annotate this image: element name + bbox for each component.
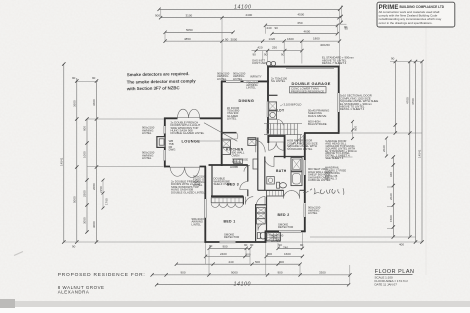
garage sectional door opening <box>286 68 334 70</box>
svg-text:500: 500 <box>255 260 260 264</box>
svg-text:LINTEL: LINTEL <box>227 117 237 121</box>
bottom extension/connector lines <box>205 233 349 285</box>
svg-text:LINTEL: LINTEL <box>233 77 243 81</box>
svg-text:LINTEL: LINTEL <box>308 211 318 215</box>
svg-text:CONT HWC: CONT HWC <box>252 61 267 65</box>
double doors bed2 <box>284 190 300 198</box>
svg-text:90: 90 <box>244 243 248 247</box>
right extension lines <box>267 62 423 243</box>
kitchen counter outline <box>222 133 238 139</box>
bed1 north wardrobe band <box>211 198 243 203</box>
hall north line <box>248 138 257 140</box>
hall cupboard boxes <box>253 159 258 169</box>
handwritten mark <box>303 188 344 195</box>
svg-text:with Section 3F7 of NZBC: with Section 3F7 of NZBC <box>126 85 181 91</box>
svg-text:4700: 4700 <box>411 98 415 105</box>
svg-text:740: 740 <box>283 246 288 250</box>
svg-text:DINING: DINING <box>239 98 255 103</box>
svg-text:occur in the drawings and spec: occur in the drawings and specifications… <box>379 21 433 25</box>
svg-text:1320: 1320 <box>269 37 276 41</box>
door arc laundry <box>277 120 283 126</box>
bottom dim row D line <box>152 274 350 276</box>
left extension lines <box>64 81 205 242</box>
bottom overall line <box>157 284 349 286</box>
smoke detector note <box>126 71 197 91</box>
svg-text:3,100 BIFOLD: 3,100 BIFOLD <box>284 102 302 106</box>
svg-text:14541: 14541 <box>60 157 64 166</box>
svg-text:SG LINTEL: SG LINTEL <box>271 79 286 83</box>
dimension row 5 line <box>165 40 339 42</box>
svg-text:HOBB: HOBB <box>230 165 238 169</box>
window: lounge west lower <box>164 150 166 161</box>
svg-text:5000: 5000 <box>72 196 76 203</box>
kitchen top line + diagonal <box>222 132 237 134</box>
svg-text:3600: 3600 <box>72 100 76 107</box>
svg-text:LINTEL: LINTEL <box>246 86 256 90</box>
french doors lounge north <box>178 109 200 118</box>
svg-text:1800: 1800 <box>313 37 320 41</box>
bottom dim row C line <box>176 263 300 265</box>
laundry top stub wall <box>268 94 278 96</box>
wall: hall east / wc west <box>256 138 258 243</box>
dimension row 3 line (right side) <box>265 24 337 26</box>
svg-text:400x50: 400x50 <box>320 43 330 47</box>
svg-text:90: 90 <box>72 245 76 249</box>
wall: bath west <box>264 157 266 191</box>
svg-text:1760: 1760 <box>105 198 109 205</box>
svg-text:90: 90 <box>225 37 229 41</box>
wall: wc top <box>256 204 267 206</box>
svg-text:2080: 2080 <box>92 183 96 190</box>
bifold opening garage west <box>267 101 269 117</box>
window: garage east <box>338 93 340 112</box>
wall: bath north <box>274 156 305 158</box>
step hatch box SE <box>267 233 281 241</box>
svg-text:650: 650 <box>298 21 303 25</box>
svg-text:BED 1: BED 1 <box>224 219 236 223</box>
svg-text:4500: 4500 <box>298 13 305 17</box>
svg-text:LINTEL: LINTEL <box>217 77 227 81</box>
wall: garage south <box>304 132 340 134</box>
svg-text:3600: 3600 <box>92 99 96 106</box>
svg-text:420: 420 <box>258 46 263 50</box>
svg-text:STANDARD LINTEL: STANDARD LINTEL <box>287 147 313 151</box>
svg-text:LINTEL: LINTEL <box>271 239 281 243</box>
svg-text:LOUNGE: LOUNGE <box>182 139 201 144</box>
wall: east <box>304 133 306 232</box>
svg-text:14541: 14541 <box>418 149 422 158</box>
svg-text:DOUBLE GLAZED LINTEL: DOUBLE GLAZED LINTEL <box>171 190 205 194</box>
entry double swing doors <box>269 142 284 150</box>
svg-text:LINTEL: LINTEL <box>193 183 203 187</box>
svg-text:2500: 2500 <box>83 190 87 197</box>
svg-text:3100: 3100 <box>186 13 193 17</box>
svg-text:1000: 1000 <box>83 151 87 158</box>
svg-text:90: 90 <box>264 53 268 57</box>
left dim column A (overall 14541) <box>63 64 65 242</box>
svg-text:DETAIL 3: DETAIL 3 <box>325 177 337 181</box>
window: bath east <box>304 160 306 175</box>
wall: wc east / bed2 west <box>266 196 268 231</box>
svg-text:600: 600 <box>354 126 358 131</box>
svg-text:BALUSTRADE: BALUSTRADE <box>308 122 327 126</box>
svg-text:BED 2: BED 2 <box>278 213 290 217</box>
gas circles on garage corner <box>267 61 271 65</box>
svg-text:2020: 2020 <box>389 193 393 200</box>
wall: step east of bed1 <box>265 231 267 243</box>
svg-text:90: 90 <box>279 243 283 247</box>
window: bed2 east <box>304 203 306 217</box>
svg-text:14100: 14100 <box>234 5 251 11</box>
svg-text:900: 900 <box>223 244 228 248</box>
svg-text:2400: 2400 <box>246 13 253 17</box>
bottom dim row B segments <box>206 255 303 257</box>
laundry appliance boxes <box>269 102 277 110</box>
svg-text:LINTEL: LINTEL <box>142 131 152 135</box>
entry lobby walls <box>268 135 286 159</box>
svg-text:1600: 1600 <box>284 252 291 256</box>
svg-text:4850: 4850 <box>184 37 191 41</box>
svg-text:DETAIL 1 SHEET 4: DETAIL 1 SHEET 4 <box>340 107 365 111</box>
svg-text:900: 900 <box>181 270 186 274</box>
svg-text:90: 90 <box>92 76 96 80</box>
svg-text:DWG: DWG <box>169 148 176 152</box>
svg-text:LINTEL: LINTEL <box>192 222 202 226</box>
right dim chain lower <box>392 157 394 237</box>
hall door arc <box>256 141 265 153</box>
toilet wc <box>257 233 260 239</box>
svg-text:DETAIL 7 SHEET 4: DETAIL 7 SHEET 4 <box>322 61 347 65</box>
door arc wc <box>258 224 265 231</box>
svg-text:SHELF OVER: SHELF OVER <box>214 182 232 186</box>
wall: garage north <box>268 66 340 68</box>
window: bed1 south <box>220 241 236 243</box>
bath shower box <box>291 158 302 172</box>
svg-text:90: 90 <box>253 53 257 57</box>
svg-text:90: 90 <box>209 244 213 248</box>
svg-text:2020: 2020 <box>382 145 386 152</box>
bed1 wardrobe boxes east <box>255 205 256 207</box>
svg-text:800: 800 <box>279 260 284 264</box>
svg-text:SEE SHEET 4: SEE SHEET 4 <box>325 156 343 160</box>
kitchen hob box <box>234 159 243 164</box>
door arc bed3 <box>240 182 248 190</box>
svg-text:RAILS ABOVE: RAILS ABOVE <box>308 114 326 118</box>
left dim column B <box>76 78 78 242</box>
svg-text:BATH: BATH <box>276 169 287 173</box>
svg-text:940: 940 <box>389 172 393 177</box>
svg-text:90: 90 <box>300 243 304 247</box>
window: dining north 1 <box>226 81 241 83</box>
garage note box <box>290 87 327 93</box>
svg-text:3050: 3050 <box>83 217 87 224</box>
svg-text:240: 240 <box>267 26 272 30</box>
door arc wc lobby <box>256 197 265 206</box>
wall: kitchen south <box>209 164 248 166</box>
door arc kitchen to hall <box>244 166 250 172</box>
bed2 north wardrobe band <box>267 190 284 196</box>
small 90 bracket right of rows <box>337 5 347 24</box>
svg-text:900: 900 <box>155 13 160 17</box>
PRIME compliance stamp box <box>377 2 455 27</box>
svg-text:2400: 2400 <box>220 252 227 256</box>
wall: bed1 west <box>204 167 206 243</box>
svg-text:250: 250 <box>272 45 277 49</box>
svg-text:5050: 5050 <box>186 28 193 32</box>
svg-text:PROPOSED RESIDENCE FOR:: PROPOSED RESIDENCE FOR: <box>58 272 146 278</box>
door arc bath <box>265 157 274 167</box>
bath toilet <box>277 182 280 188</box>
wall: bed1 alcove east <box>242 196 244 204</box>
svg-text:ALEXANDRA: ALEXANDRA <box>58 290 90 295</box>
svg-text:14100: 14100 <box>234 281 251 287</box>
dimension row 1 line <box>159 8 340 10</box>
wall: bed3 west <box>211 166 213 197</box>
bath tub <box>291 172 302 186</box>
dimension row 4 line (right side 4600) <box>272 33 337 35</box>
svg-text:3300: 3300 <box>319 271 326 275</box>
extension lines from top dims to building <box>161 9 340 81</box>
interior dim chain right of stairs <box>352 122 354 139</box>
wall: dining west <box>221 81 223 166</box>
svg-text:INFINITY: INFINITY <box>250 75 262 79</box>
wall: bed3 east + door <box>247 165 249 196</box>
scan artifact: bottom gray band <box>0 301 470 307</box>
right dim chain mid (2020) <box>386 138 388 156</box>
pantry box <box>248 138 256 146</box>
right dim column R2 <box>409 62 411 238</box>
window: bed2 south <box>279 230 301 232</box>
svg-text:4600: 4600 <box>304 30 311 34</box>
window: lounge west upper <box>164 126 166 134</box>
door arc bed1 <box>245 197 253 205</box>
window: bed1 west <box>204 199 206 218</box>
wall: dining north <box>221 80 269 82</box>
wall: garage west / dining east <box>267 66 269 134</box>
svg-text:90: 90 <box>275 26 279 30</box>
window: dining north 2 <box>244 81 259 83</box>
left dim column C <box>86 119 88 232</box>
svg-text:DETECTOR: DETECTOR <box>278 225 293 229</box>
fireplace <box>157 137 165 148</box>
bed1 curtain scallops <box>211 203 243 207</box>
svg-text:3000: 3000 <box>231 37 238 41</box>
stairs <box>264 124 302 135</box>
svg-text:LDY: LDY <box>277 108 285 112</box>
svg-text:9000: 9000 <box>231 271 238 275</box>
right dim column R3 <box>415 62 417 243</box>
french doors lounge south <box>170 167 200 178</box>
svg-text:90: 90 <box>250 243 254 247</box>
wall: lounge west <box>164 118 166 168</box>
bath vanity <box>267 177 275 185</box>
wc linen boxes <box>257 207 266 213</box>
scan artifact: faint pencil mark left <box>14 252 23 256</box>
wall: garage east <box>338 66 340 134</box>
svg-text:LINTEL: LINTEL <box>142 156 152 160</box>
svg-text:DOUBLE GLAZED LINTEL: DOUBLE GLAZED LINTEL <box>171 131 205 135</box>
wall: bed2 south <box>265 230 306 232</box>
svg-text:400: 400 <box>399 243 404 247</box>
svg-text:90: 90 <box>391 57 395 61</box>
left dim column D <box>96 81 98 242</box>
svg-text:90: 90 <box>344 25 348 29</box>
dimension row 6 short segments <box>252 50 303 52</box>
wall: bath south <box>258 189 305 191</box>
svg-text:900: 900 <box>278 270 283 274</box>
dimension row 2 line <box>161 17 340 19</box>
svg-text:1500: 1500 <box>389 215 393 222</box>
svg-text:600: 600 <box>83 126 87 131</box>
svg-text:1600: 1600 <box>287 37 294 41</box>
svg-text:240: 240 <box>229 260 234 264</box>
wall: bed1 south <box>205 241 267 243</box>
svg-text:BUILDING COMPLIANCE LTD: BUILDING COMPLIANCE LTD <box>400 5 445 9</box>
right dim column R4 (overall 14541) <box>421 62 423 243</box>
svg-text:DETECTOR: DETECTOR <box>224 235 239 239</box>
kitchen appliance boxes <box>222 140 231 147</box>
faint fold line right <box>426 25 427 275</box>
right dim column R1 <box>394 62 396 134</box>
svg-text:4700: 4700 <box>405 97 409 104</box>
svg-text:2150: 2150 <box>99 186 103 193</box>
wall: lounge south <box>164 166 206 168</box>
left dim small cluster <box>102 180 104 208</box>
svg-text:90: 90 <box>72 76 76 80</box>
scan artifact: bottom-left smudge <box>0 299 15 308</box>
svg-text:3000: 3000 <box>92 221 96 228</box>
wall: lounge north <box>164 117 223 119</box>
dimension row 4 line (left side 5050) <box>165 31 233 33</box>
svg-text:800: 800 <box>267 252 272 256</box>
svg-text:DATE 11 JAN 07: DATE 11 JAN 07 <box>375 282 398 286</box>
wall: bed3 south <box>211 195 243 197</box>
bottom dim row A segments <box>209 247 302 249</box>
svg-text:PROPOSED RESIDENCE: PROPOSED RESIDENCE <box>291 89 324 93</box>
